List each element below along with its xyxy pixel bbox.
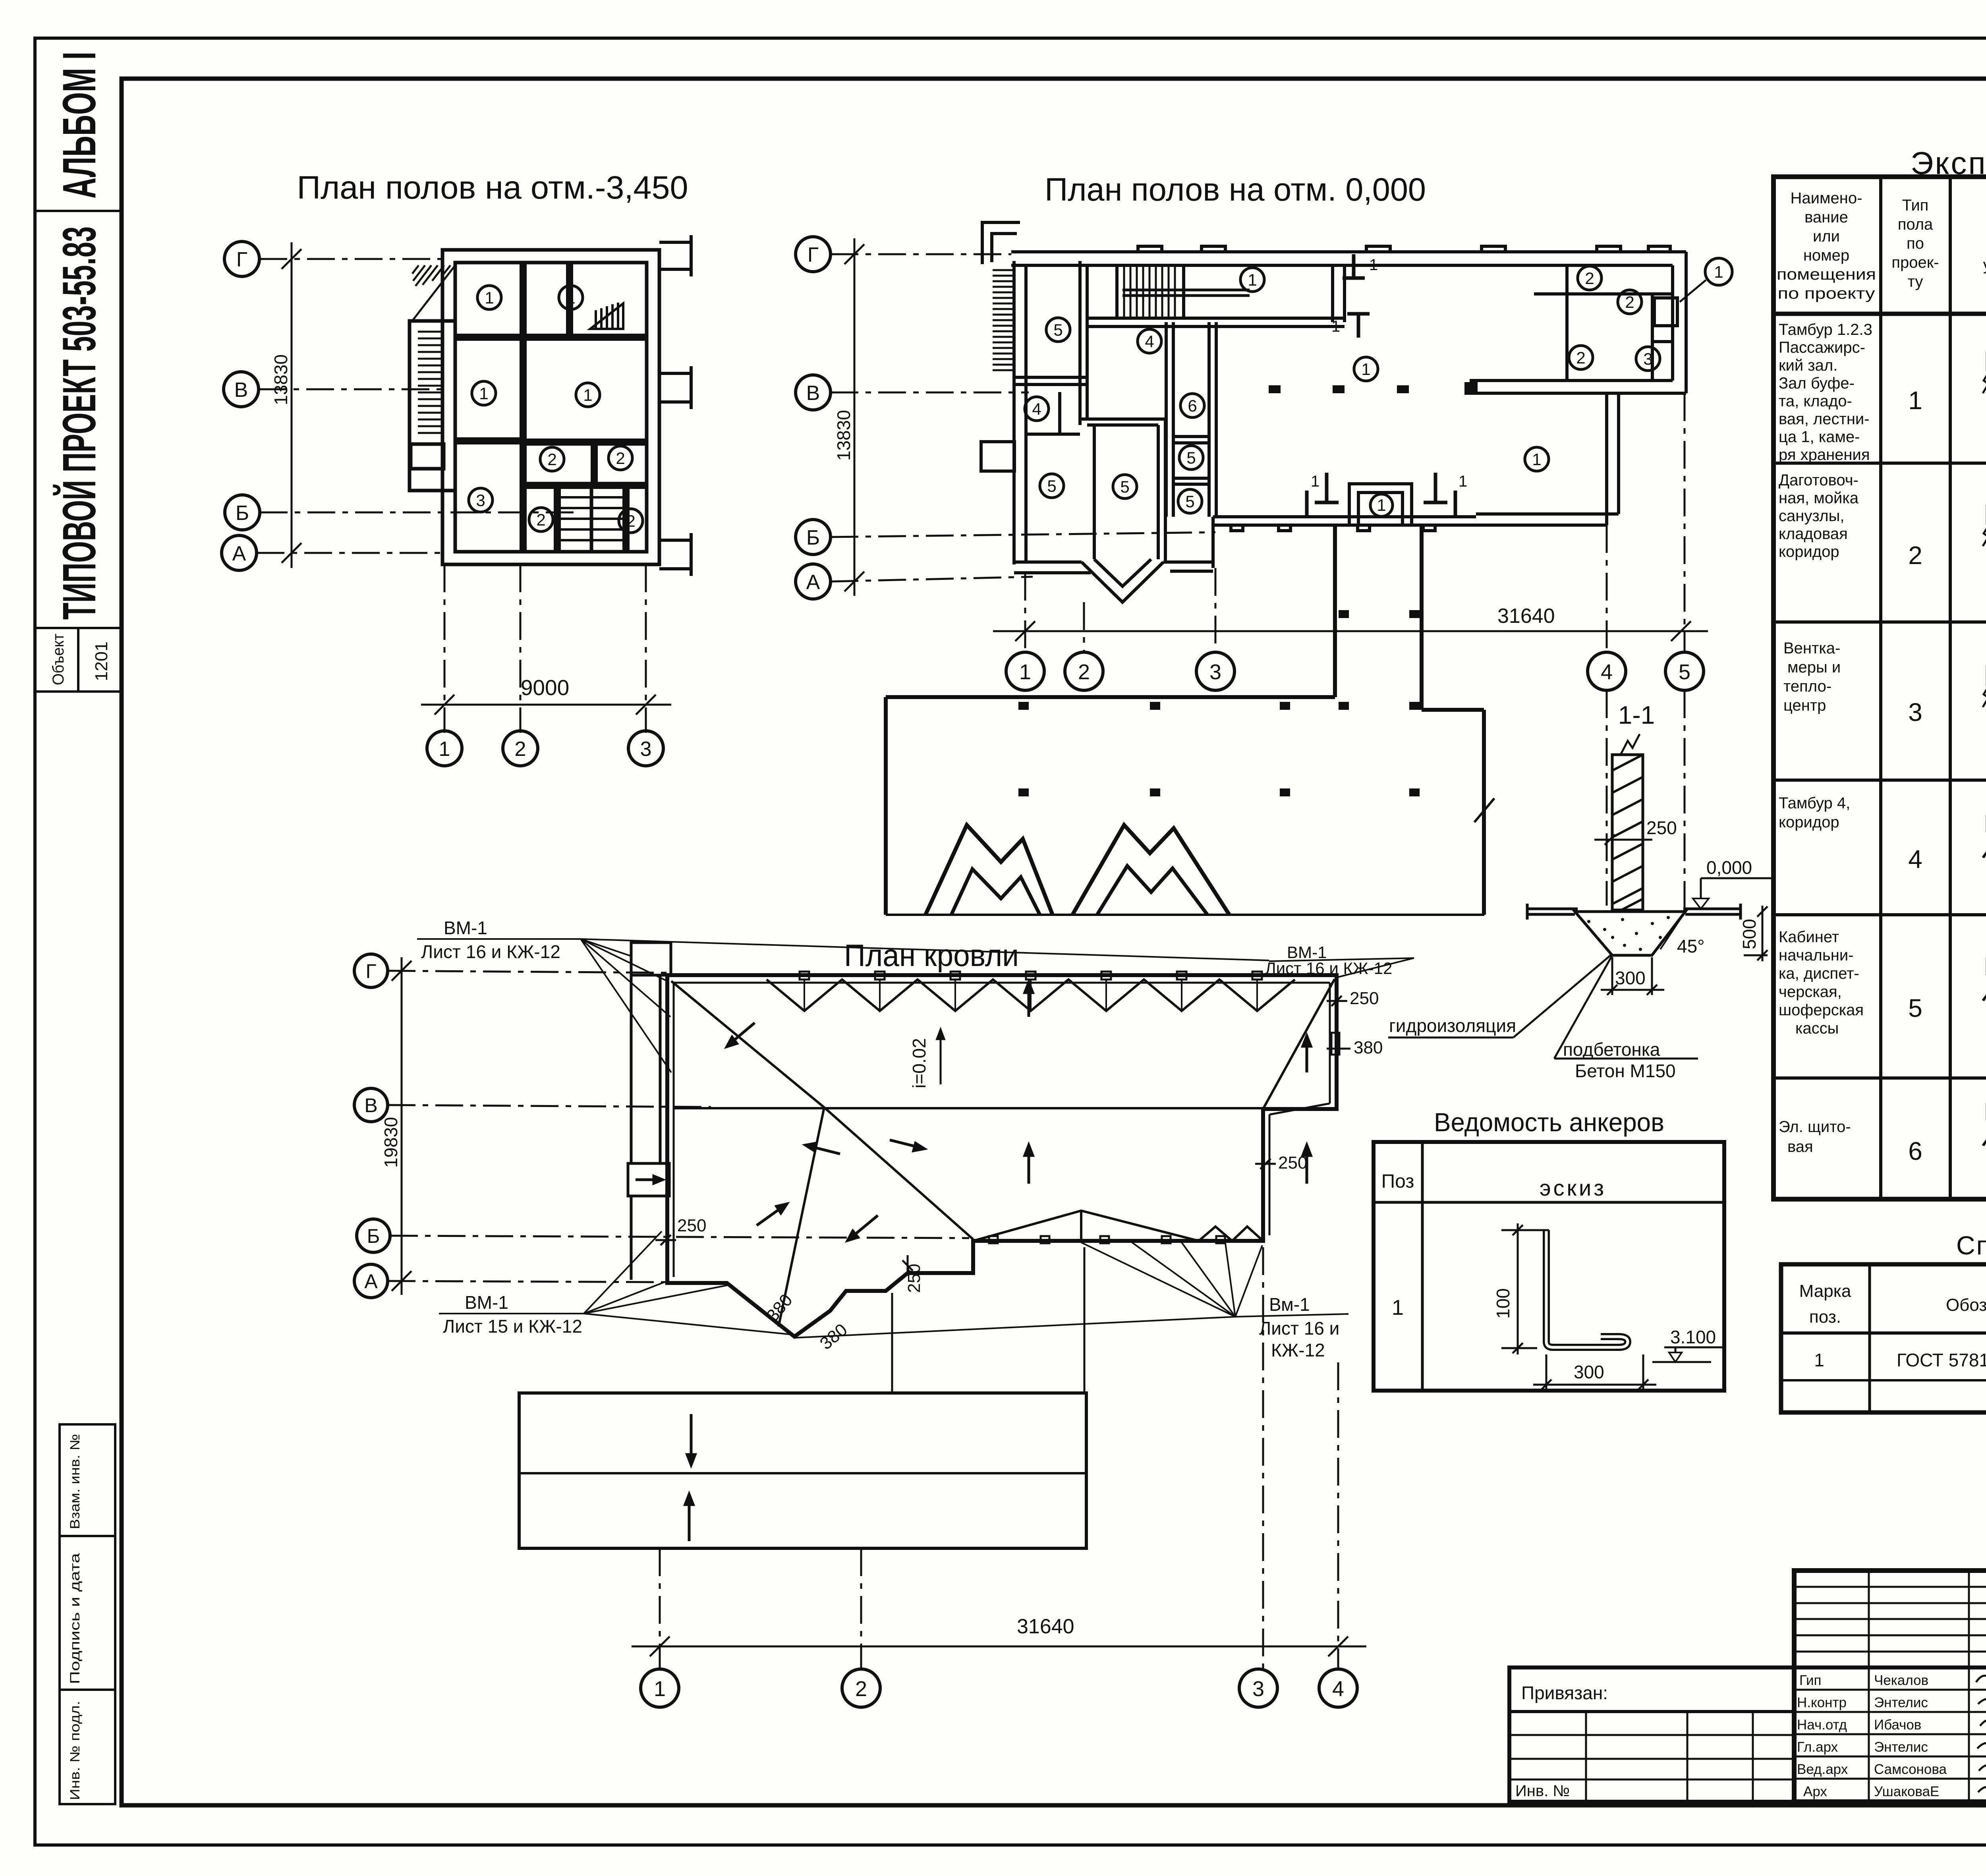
plan1 dim 9000 <box>421 695 671 715</box>
svg-text:250: 250 <box>904 1264 924 1293</box>
svg-text:1: 1 <box>479 384 488 403</box>
svg-text:Пассажирс-: Пассажирс- <box>1779 339 1865 356</box>
svg-text:В: В <box>806 382 820 405</box>
svg-text:500: 500 <box>1739 919 1760 949</box>
roof axis circles <box>354 954 390 1298</box>
svg-text:1: 1 <box>485 288 494 307</box>
titleblock sig names <box>1874 1673 1947 1799</box>
svg-text:9000: 9000 <box>521 675 569 700</box>
svg-text:4: 4 <box>1332 1677 1344 1701</box>
section column hatch <box>1612 755 1643 910</box>
svg-text:3: 3 <box>640 738 652 761</box>
plan2 small room walls <box>1331 265 1334 322</box>
titleblock frame <box>1794 1571 1986 1802</box>
svg-text:13830: 13830 <box>833 410 854 461</box>
plan2 pentagon room <box>1080 417 1165 421</box>
svg-text:по: по <box>1907 235 1924 252</box>
plan2 vert dim 13830 <box>844 238 864 596</box>
svg-text:Нач.отд: Нач.отд <box>1797 1717 1847 1733</box>
anchor sketch <box>1546 1230 1628 1347</box>
svg-text:Г: Г <box>365 960 376 982</box>
svg-text:ца 1, каме-: ца 1, каме- <box>1779 428 1860 446</box>
plan2 bottom axis extensions <box>1025 393 1685 910</box>
svg-text:Б: Б <box>367 1225 380 1247</box>
svg-text:13830: 13830 <box>270 354 291 405</box>
leader gidroizolyaciya <box>1388 955 1611 1037</box>
svg-text:подбетонка: подбетонка <box>1563 1039 1660 1060</box>
roof vert dim 19830 <box>392 957 411 1295</box>
roof axis lines <box>388 971 969 1282</box>
svg-text:Вм-1: Вм-1 <box>1269 1294 1310 1315</box>
svg-text:4: 4 <box>1145 332 1154 351</box>
svg-text:45°: 45° <box>1677 936 1705 956</box>
svg-text:поз.: поз. <box>1809 1307 1841 1327</box>
roof VM-1 label bottom-right <box>1259 1294 1339 1360</box>
svg-text:1: 1 <box>566 288 575 307</box>
roof axis letters <box>364 960 380 1293</box>
svg-text:3: 3 <box>1252 1677 1264 1701</box>
explik row4 name <box>1779 794 1850 831</box>
svg-text:1: 1 <box>1532 450 1541 469</box>
svg-text:3: 3 <box>1643 350 1652 368</box>
plan2 hall column dots <box>1269 385 1409 393</box>
plan2 right column rooms <box>1165 322 1168 517</box>
svg-text:или: или <box>1813 228 1840 245</box>
svg-text:А: А <box>806 571 820 594</box>
svg-text:УшаковаЕ: УшаковаЕ <box>1874 1784 1939 1799</box>
svg-text:ГОСТ 5781-82: ГОСТ 5781-82 <box>1897 1350 1986 1370</box>
section dim 300 <box>1601 957 1664 995</box>
svg-text:1: 1 <box>1459 473 1467 490</box>
svg-text:Ведомость анкеров: Ведомость анкеров <box>1434 1107 1664 1137</box>
svg-text:2: 2 <box>1078 660 1090 684</box>
svg-text:вание: вание <box>1804 209 1848 226</box>
svg-text:кий зал.: кий зал. <box>1779 357 1837 374</box>
svg-text:2: 2 <box>515 738 526 761</box>
svg-text:ная, мойка: ная, мойка <box>1779 489 1859 507</box>
svg-text:1: 1 <box>1361 360 1370 379</box>
roof slope arrows <box>727 982 1311 1240</box>
svg-text:пола: пола <box>1898 216 1933 233</box>
svg-text:Обозначение: Обозначение <box>1946 1295 1986 1315</box>
svg-text:Привязан:: Привязан: <box>1521 1683 1608 1703</box>
plan2 entry stairs hatch left <box>993 270 1013 370</box>
svg-text:i=0.02: i=0.02 <box>909 1038 929 1088</box>
plan2 right section bottom wall <box>1470 379 1673 382</box>
svg-text:300: 300 <box>1574 1362 1604 1382</box>
explik row6 schema <box>1983 1103 1986 1146</box>
plan2 closet right <box>1534 265 1677 381</box>
svg-text:Кабинет: Кабинет <box>1779 928 1839 946</box>
svg-text:Вед.арх: Вед.арх <box>1797 1762 1848 1777</box>
svg-text:коридор: коридор <box>1779 813 1839 831</box>
svg-text:помещения: помещения <box>1777 266 1876 283</box>
svg-text:ВМ-1: ВМ-1 <box>465 1292 508 1313</box>
plan2 vestibule top-left <box>982 222 1020 264</box>
plan1 outer walls <box>410 250 659 564</box>
roof inner edge lines <box>674 983 1330 1277</box>
svg-text:ТИПОВОЙ ПРОЕКТ 503-55.83: ТИПОВОЙ ПРОЕКТ 503-55.83 <box>52 226 106 620</box>
svg-text:центр: центр <box>1783 697 1826 714</box>
canopy rect divider <box>519 1472 1086 1474</box>
plan2 corridor wall <box>1087 317 1345 320</box>
canopy rect outline <box>519 1393 1086 1548</box>
svg-text:Лист 15 и КЖ-12: Лист 15 и КЖ-12 <box>443 1316 582 1337</box>
svg-text:по проекту: по проекту <box>1778 285 1875 302</box>
svg-text:1: 1 <box>1392 1296 1404 1320</box>
plan1 bottom axis extensions <box>444 564 646 733</box>
svg-text:2: 2 <box>626 512 635 530</box>
plan2 top wall pilasters <box>1138 246 1670 252</box>
plan1 right wall stubs <box>659 235 691 576</box>
svg-text:Г: Г <box>236 248 247 271</box>
plan2 stairwell treads <box>1122 265 1250 317</box>
svg-text:5: 5 <box>1186 448 1196 467</box>
canopy edges <box>886 525 1484 915</box>
svg-text:А: А <box>364 1270 378 1293</box>
svg-text:Вентка-: Вентка- <box>1783 640 1840 657</box>
roof left bay <box>628 943 671 1280</box>
plan1 bottom stairs <box>557 488 626 552</box>
explik row4 schema <box>1983 815 1986 858</box>
svg-text:1: 1 <box>1377 496 1386 514</box>
svg-text:Самсонова: Самсонова <box>1874 1762 1947 1777</box>
svg-text:1: 1 <box>439 738 450 761</box>
explik table frame <box>1773 177 1986 1199</box>
section column break mark <box>1621 734 1640 755</box>
strip cell divider 1 <box>35 210 122 212</box>
svg-text:Б: Б <box>806 526 820 549</box>
section labels <box>1389 817 1760 1081</box>
svg-text:вая, лестни-: вая, лестни- <box>1779 410 1870 428</box>
svg-text:проек-: проек- <box>1891 254 1939 271</box>
canopy axis digits <box>654 1677 1344 1701</box>
plan2 room numbers <box>1032 263 1723 514</box>
svg-text:Н.контр: Н.контр <box>1797 1695 1847 1710</box>
plan1 left stair bay <box>410 321 455 491</box>
spec table frame <box>1781 1264 1986 1412</box>
svg-text:1: 1 <box>1311 473 1319 490</box>
svg-text:узла по серии: узла по серии <box>1983 256 1986 274</box>
plan2 left wall <box>1012 261 1016 564</box>
svg-text:3: 3 <box>476 491 485 510</box>
plan2 stair cut marks T1 <box>1343 254 1370 338</box>
plan2 axis circles <box>796 237 831 599</box>
plan2 left bump <box>981 442 1014 471</box>
plan1 interior walls <box>455 263 647 552</box>
svg-text:ту: ту <box>1908 273 1923 290</box>
svg-text:1: 1 <box>654 1677 666 1701</box>
svg-text:Ибачов: Ибачов <box>1874 1717 1921 1733</box>
svg-text:2: 2 <box>1576 348 1585 367</box>
explik row2 schema <box>1983 505 1986 563</box>
svg-text:Энтелис: Энтелис <box>1874 1739 1928 1755</box>
canopy column dots <box>1018 610 1420 796</box>
svg-text:Наимено-: Наимено- <box>1791 189 1862 207</box>
roof outline <box>667 975 1337 1337</box>
roof bottom funnel ticks <box>989 1236 1225 1243</box>
svg-text:2: 2 <box>1625 293 1634 311</box>
svg-text:5: 5 <box>1908 994 1922 1022</box>
plan2 room5 walls top-left <box>1078 261 1082 425</box>
svg-text:0,000: 0,000 <box>1706 857 1752 878</box>
svg-text:Инв. №: Инв. № <box>1515 1782 1570 1800</box>
roof valley diagonals <box>671 979 1335 1327</box>
svg-text:черская,: черская, <box>1779 983 1842 1001</box>
svg-text:5: 5 <box>1047 477 1056 495</box>
svg-text:1: 1 <box>1019 660 1031 684</box>
anchor elev 3.100 <box>1652 1347 1724 1362</box>
explik row2 name <box>1779 471 1859 560</box>
canopy bottom line <box>886 914 1484 916</box>
svg-text:кассы: кассы <box>1795 1020 1839 1037</box>
svg-text:Бетон М150: Бетон М150 <box>1575 1061 1676 1081</box>
svg-text:1: 1 <box>1714 263 1723 281</box>
roof bay arrow <box>636 1176 663 1183</box>
titleblock signatures <box>1976 1667 1986 1803</box>
plan1 left bay stair hatch <box>412 265 455 433</box>
svg-text:2: 2 <box>1908 541 1922 570</box>
svg-text:Арх: Арх <box>1803 1784 1827 1799</box>
svg-text:Объект: Объект <box>50 634 67 685</box>
roof VM-1 label top-right <box>1265 943 1392 978</box>
svg-text:Тип: Тип <box>1902 197 1929 214</box>
plan1 axis circles <box>222 242 260 570</box>
plan2 top wall <box>981 222 1686 602</box>
svg-text:2: 2 <box>547 450 556 469</box>
svg-text:КЖ-12: КЖ-12 <box>1271 1340 1325 1360</box>
svg-text:Подпись и дата: Подпись и дата <box>68 1553 83 1684</box>
roof dim labels <box>677 989 1383 1354</box>
strip cell divider 2 <box>35 627 122 629</box>
svg-text:Эл. щито-: Эл. щито- <box>1779 1118 1851 1136</box>
strip cell divider 3 <box>35 690 122 693</box>
svg-text:4: 4 <box>1908 845 1922 873</box>
plan2 axis letters <box>806 243 820 594</box>
roof top funnel row <box>767 980 1295 1011</box>
svg-text:1: 1 <box>1331 318 1340 335</box>
svg-text:3: 3 <box>1908 698 1922 726</box>
strip objekt split <box>77 628 79 692</box>
roof slope dim line for i <box>937 1030 944 1084</box>
plan2 stairwell walls <box>1115 265 1119 318</box>
roof VM-1 label top-left <box>421 918 560 962</box>
svg-text:Лист 16 и КЖ-12: Лист 16 и КЖ-12 <box>421 941 560 962</box>
svg-text:1: 1 <box>1369 256 1378 274</box>
explik col lines <box>1881 177 1986 1199</box>
svg-text:Лист 16 и: Лист 16 и <box>1259 1318 1339 1339</box>
plan2 right wall <box>1685 252 1688 393</box>
plan1 bottom axis circles <box>427 731 663 766</box>
svg-text:19830: 19830 <box>381 1117 401 1168</box>
anchor dim 100 <box>1501 1223 1549 1354</box>
svg-text:250: 250 <box>677 1216 706 1235</box>
svg-text:300: 300 <box>1615 968 1646 988</box>
plan2 porch cut marks <box>1307 473 1455 516</box>
section ground lines <box>1527 904 1741 920</box>
plan1 top-right stair wedge <box>590 303 623 329</box>
svg-text:Зал буфе-: Зал буфе- <box>1779 375 1855 392</box>
section foundation <box>1575 912 1685 955</box>
plan2 leader to 1 <box>1680 258 1732 302</box>
svg-text:250: 250 <box>1350 989 1379 1008</box>
explik row3 schema <box>1983 666 1986 724</box>
plan2 hall wall stub <box>1466 384 1476 393</box>
leader podbetonka <box>1554 955 1698 1059</box>
svg-text:Поз: Поз <box>1381 1171 1414 1192</box>
section dim 250 <box>1594 835 1652 845</box>
svg-text:100: 100 <box>1493 1288 1513 1319</box>
roof bottom funnel row <box>973 1211 1263 1241</box>
svg-text:3: 3 <box>1209 660 1221 684</box>
canopy dim 31640 <box>632 1636 1366 1656</box>
section column <box>1612 755 1643 910</box>
svg-text:АЛЬБОМ I: АЛЬБОМ I <box>53 52 106 199</box>
svg-text:31640: 31640 <box>1497 605 1555 628</box>
svg-text:Чекалов: Чекалов <box>1874 1673 1928 1688</box>
svg-text:1: 1 <box>1248 270 1257 289</box>
titleblock sig roles <box>1797 1673 1848 1799</box>
svg-text:4: 4 <box>1601 660 1613 684</box>
svg-text:2: 2 <box>855 1677 867 1701</box>
svg-text:2: 2 <box>536 510 545 529</box>
anchor dim 300 <box>1533 1354 1656 1390</box>
svg-text:В: В <box>234 379 248 402</box>
svg-text:кладовая: кладовая <box>1779 525 1848 543</box>
svg-text:1: 1 <box>583 386 592 404</box>
plan1 axis letters <box>232 248 652 761</box>
vedomost table frame <box>1374 1142 1724 1391</box>
svg-text:вая: вая <box>1787 1138 1813 1155</box>
svg-text:ка, диспет-: ка, диспет- <box>1779 965 1859 982</box>
canopy rect axis extensions <box>660 1247 1338 1668</box>
svg-text:6: 6 <box>1908 1137 1922 1165</box>
roof corner dim marks <box>655 996 1350 1276</box>
svg-text:31640: 31640 <box>1017 1615 1074 1638</box>
svg-text:380: 380 <box>1354 1038 1383 1057</box>
svg-text:санузлы,: санузлы, <box>1779 507 1844 525</box>
svg-text:1: 1 <box>1814 1350 1824 1370</box>
plan2 cut labels <box>1311 256 1467 490</box>
section foundation dots <box>1587 916 1670 951</box>
svg-text:Взам. инв. №: Взам. инв. № <box>68 1434 83 1529</box>
svg-text:Гип: Гип <box>1799 1673 1822 1688</box>
svg-text:1201: 1201 <box>92 641 111 681</box>
canopy rect arrows <box>685 1247 1084 1541</box>
svg-text:3.100: 3.100 <box>1670 1327 1716 1347</box>
canopy chevron A <box>925 825 1053 915</box>
roof VM-1 label bottom-left <box>443 1292 582 1337</box>
svg-text:5: 5 <box>1185 492 1194 511</box>
explik row lines <box>1773 314 1986 1078</box>
canopy bottom axis circles <box>641 1669 1357 1707</box>
plan2 axis row lines <box>831 254 1215 582</box>
svg-text:4: 4 <box>1032 400 1041 418</box>
plan2 room4 walls <box>1026 433 1080 436</box>
spec header texts <box>1799 1281 1986 1327</box>
roof ridge line <box>674 1107 1263 1109</box>
plan1 vert dim 13830 <box>282 242 301 568</box>
bottom-left rotated boxes <box>60 1424 115 1804</box>
plan2 room number circles <box>1025 266 1660 516</box>
svg-text:1-1: 1-1 <box>1618 701 1655 729</box>
svg-text:А: А <box>232 542 246 565</box>
plan1 axis row lines <box>257 259 576 553</box>
svg-text:Б: Б <box>236 502 249 525</box>
svg-text:Энтелис: Энтелис <box>1874 1695 1928 1710</box>
svg-text:Тамбур 1.2.3: Тамбур 1.2.3 <box>1779 321 1872 338</box>
svg-text:1: 1 <box>1908 386 1922 415</box>
svg-text:коридор: коридор <box>1779 543 1839 560</box>
svg-text:250: 250 <box>1646 817 1677 838</box>
plan2 central bottom wall <box>1213 515 1476 518</box>
spec row texts <box>1814 1350 1986 1370</box>
svg-text:Г: Г <box>808 243 819 267</box>
svg-text:5: 5 <box>1679 660 1690 684</box>
plan2 lower right hall walls <box>1605 393 1608 525</box>
section 45 arc leader <box>1660 912 1685 949</box>
svg-text:250: 250 <box>1278 1153 1307 1173</box>
plan2 bottom axis circles <box>1006 652 1704 690</box>
explik row1 schema <box>1983 352 1986 410</box>
explik row6 name <box>1779 1118 1851 1155</box>
svg-text:та, кладо-: та, кладо- <box>1779 392 1852 410</box>
plan2 interior <box>1012 261 1476 586</box>
svg-text:6: 6 <box>1188 396 1197 415</box>
explik row5 name <box>1779 928 1864 1037</box>
svg-text:В: В <box>364 1094 377 1117</box>
plan1 room circles <box>469 286 643 533</box>
plan2 bottom wall A and beak <box>1014 560 1082 564</box>
plan2 dim 31640 <box>993 621 1708 641</box>
svg-text:План полов на отм. 0,000: План полов на отм. 0,000 <box>1045 172 1426 208</box>
svg-text:План полов на отм.-3,450: План полов на отм.-3,450 <box>297 170 688 206</box>
svg-text:Спецификация: Спецификация <box>1956 1231 1986 1260</box>
svg-text:номер: номер <box>1803 247 1849 264</box>
svg-text:Инв. № подл.: Инв. № подл. <box>68 1701 83 1800</box>
explik header texts <box>1777 189 1986 302</box>
svg-text:ря хранения: ря хранения <box>1779 446 1870 464</box>
svg-text:эскиз: эскиз <box>1540 1175 1606 1200</box>
svg-text:меры и: меры и <box>1787 659 1841 676</box>
canopy chevron B <box>1072 825 1229 915</box>
svg-text:начальни-: начальни- <box>1779 947 1853 964</box>
explik row3 name <box>1783 640 1841 714</box>
canopy break slash <box>1474 798 1494 822</box>
svg-text:5: 5 <box>1053 321 1063 339</box>
svg-text:2: 2 <box>1585 269 1594 288</box>
explik row5 schema <box>1983 958 1986 1001</box>
svg-text:гидроизоляция: гидроизоляция <box>1389 1015 1516 1036</box>
svg-text:Тамбур 4,: Тамбур 4, <box>1779 794 1850 812</box>
svg-text:5: 5 <box>1120 477 1129 496</box>
svg-text:ВМ-1: ВМ-1 <box>444 918 487 938</box>
explik row1 name <box>1779 321 1872 464</box>
svg-text:План кровли: План кровли <box>844 938 1019 973</box>
svg-text:Даготовоч-: Даготовоч- <box>1779 471 1858 489</box>
titleblock sig grid <box>1794 1571 1986 1802</box>
section dim 500 <box>1744 906 1768 961</box>
plan2 porch <box>1349 484 1412 525</box>
svg-text:2: 2 <box>616 449 625 468</box>
svg-text:тепло-: тепло- <box>1783 678 1831 695</box>
svg-text:Гл.арх: Гл.арх <box>1797 1739 1838 1755</box>
roof top funnel ticks <box>800 972 1262 980</box>
svg-text:шоферская: шоферская <box>1779 1001 1864 1019</box>
svg-text:Марка: Марка <box>1799 1281 1851 1301</box>
plan1 room numbers <box>476 288 635 530</box>
section level mark 0.000 <box>1693 878 1774 909</box>
